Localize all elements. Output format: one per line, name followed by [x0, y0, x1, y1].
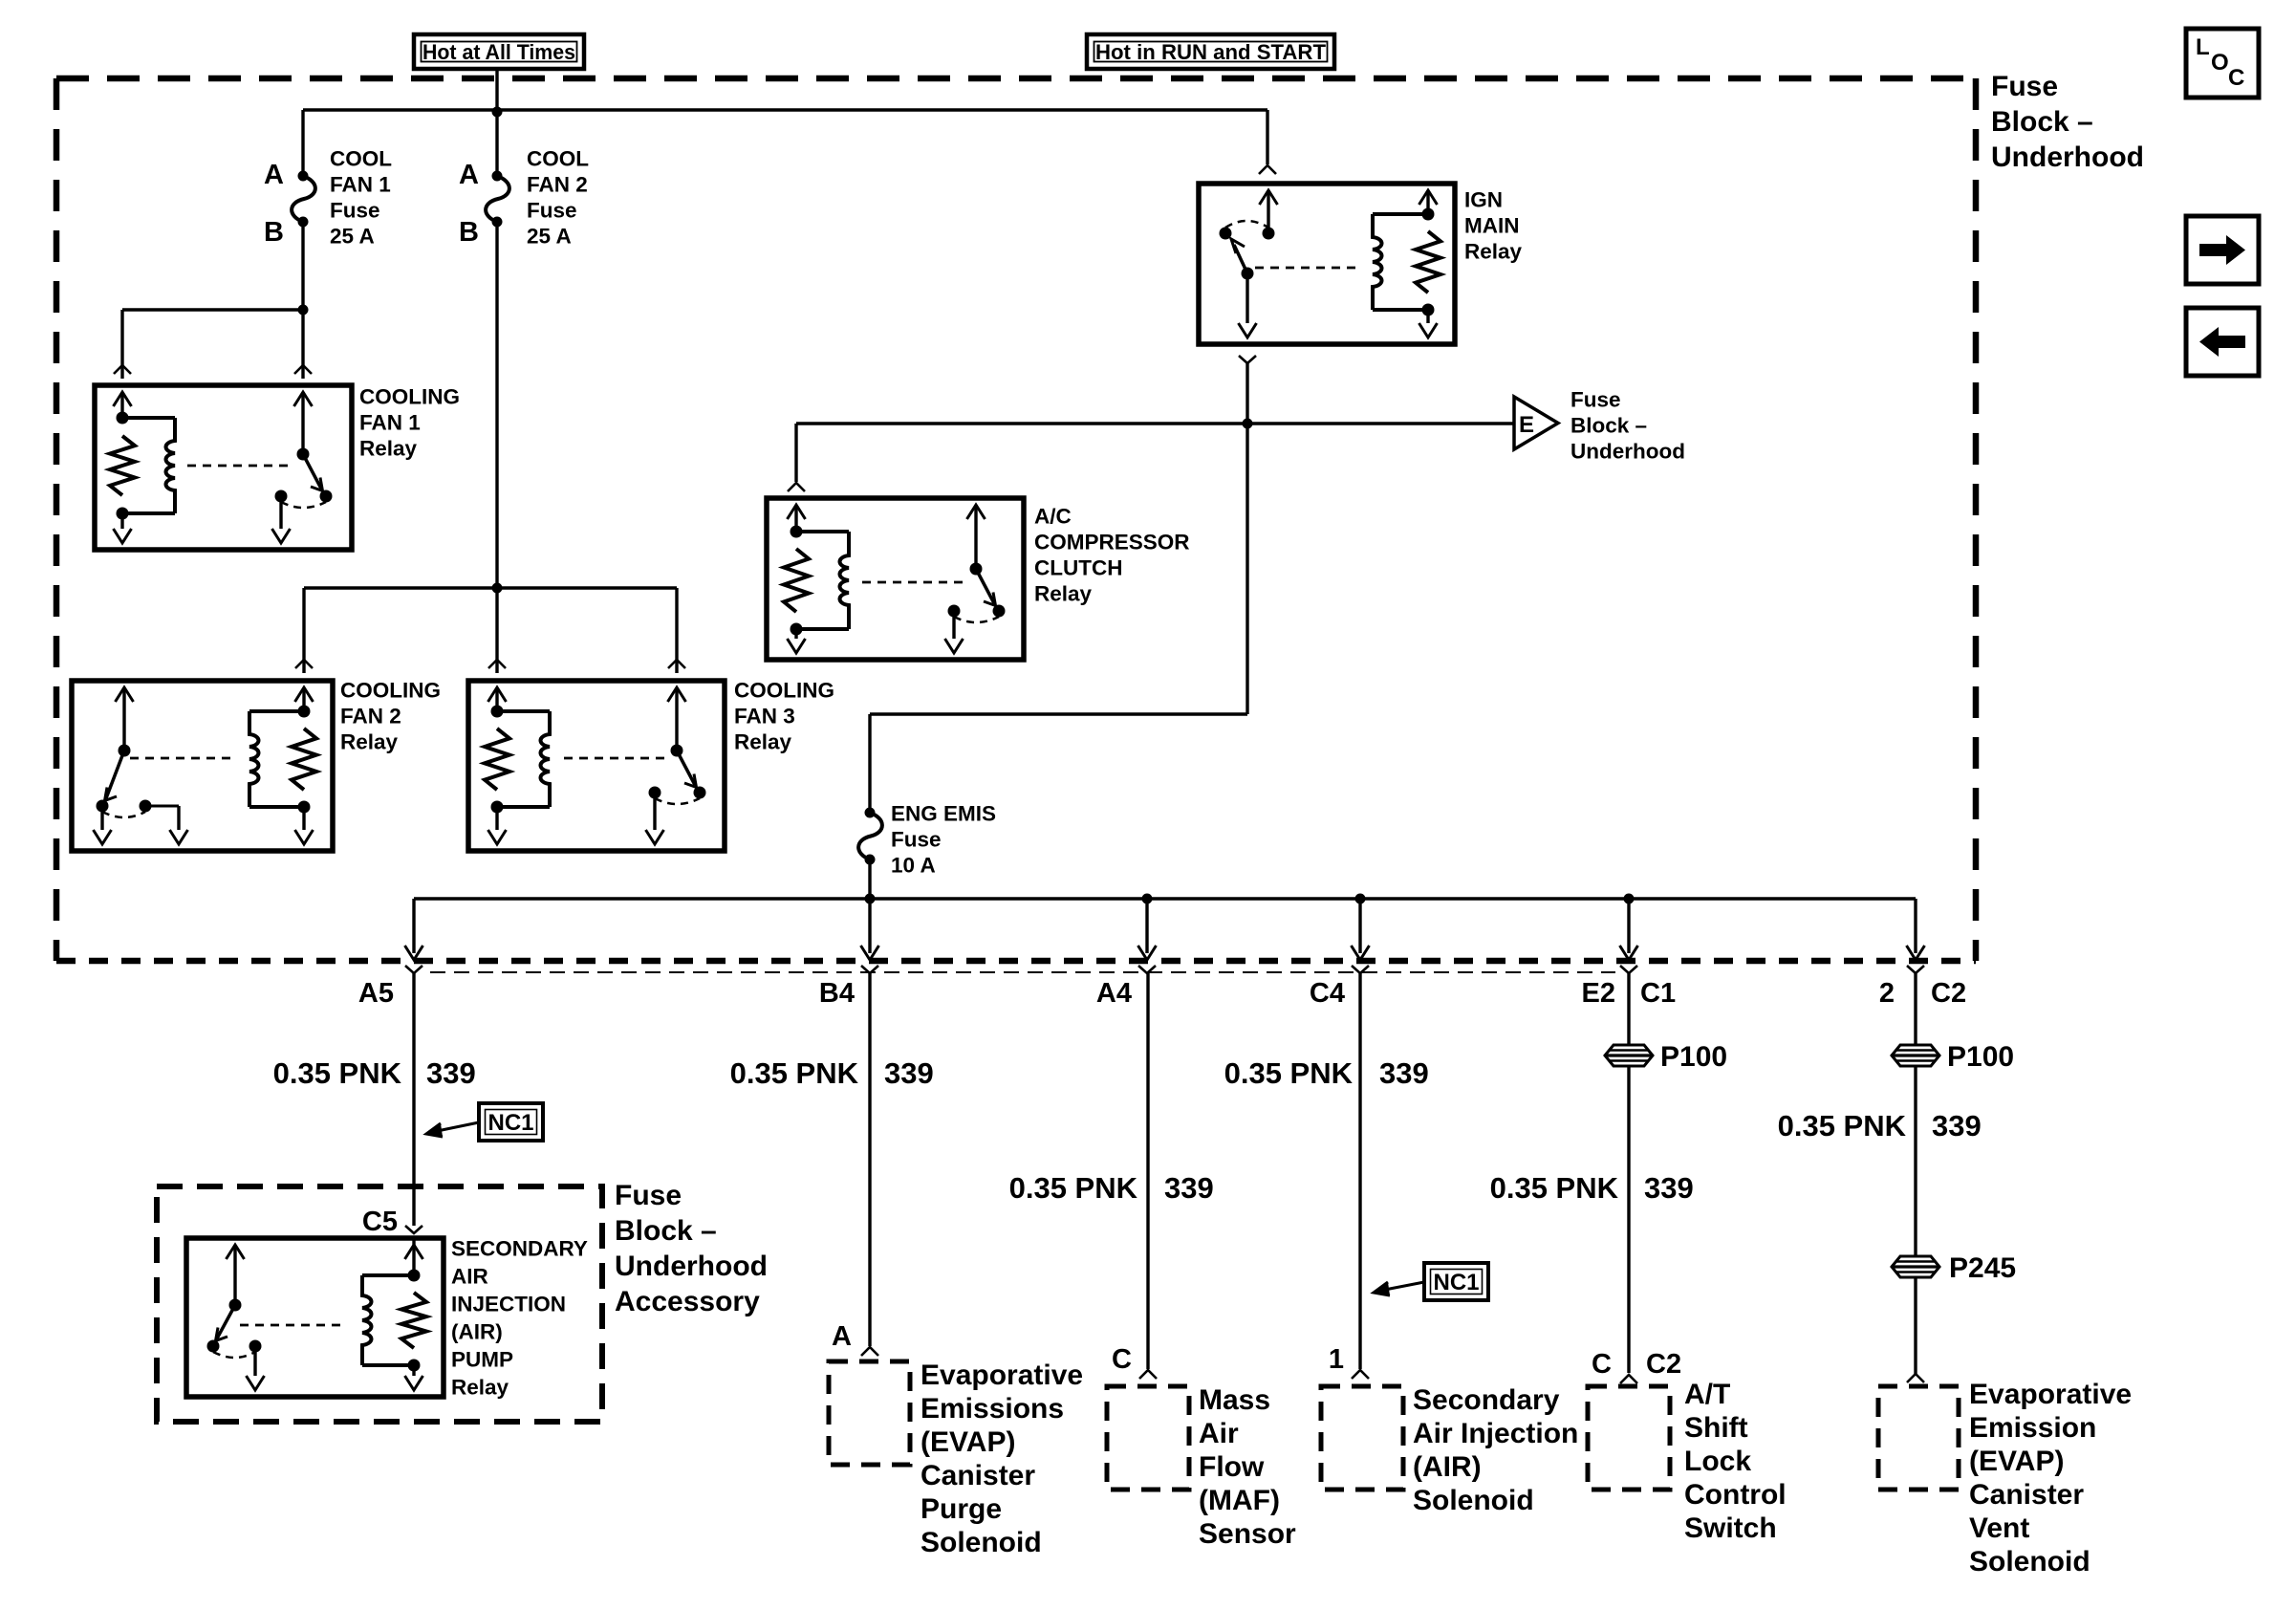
- svg-text:C: C: [1592, 1349, 1612, 1380]
- svg-text:COOL: COOL: [330, 146, 392, 170]
- svg-text:FAN 1: FAN 1: [330, 172, 391, 196]
- svg-text:339: 339: [1379, 1056, 1429, 1090]
- svg-text:IGN: IGN: [1464, 187, 1503, 211]
- svg-text:0.35 PNK: 0.35 PNK: [1490, 1171, 1619, 1205]
- svg-text:CLUTCH: CLUTCH: [1034, 555, 1122, 579]
- svg-text:E2: E2: [1582, 978, 1615, 1009]
- svg-text:E: E: [1519, 412, 1534, 438]
- svg-text:Accessory: Accessory: [615, 1286, 760, 1317]
- svg-text:Fuse: Fuse: [330, 198, 380, 222]
- svg-text:339: 339: [426, 1056, 476, 1090]
- svg-text:FAN 3: FAN 3: [734, 704, 795, 728]
- svg-text:FAN 1: FAN 1: [359, 410, 421, 434]
- svg-text:INJECTION: INJECTION: [451, 1292, 566, 1316]
- svg-text:C: C: [1112, 1344, 1132, 1375]
- svg-text:A/C: A/C: [1034, 504, 1072, 528]
- svg-text:Hot in RUN and START: Hot in RUN and START: [1095, 40, 1326, 64]
- svg-text:C1: C1: [1640, 978, 1676, 1009]
- svg-text:339: 339: [1644, 1171, 1694, 1205]
- svg-text:A: A: [459, 160, 479, 190]
- svg-text:0.35 PNK: 0.35 PNK: [1009, 1171, 1138, 1205]
- svg-text:1: 1: [1329, 1344, 1344, 1375]
- svg-text:Fuse: Fuse: [615, 1180, 682, 1211]
- svg-text:P100: P100: [1947, 1041, 2014, 1073]
- svg-text:A: A: [832, 1321, 852, 1352]
- svg-text:COOLING: COOLING: [359, 384, 460, 408]
- svg-text:COOL: COOL: [527, 146, 589, 170]
- svg-text:339: 339: [1164, 1171, 1214, 1205]
- svg-text:Solenoid: Solenoid: [1969, 1546, 2090, 1577]
- svg-text:Relay: Relay: [359, 436, 418, 460]
- svg-text:Underhood: Underhood: [1570, 439, 1685, 463]
- svg-text:2: 2: [1879, 978, 1895, 1009]
- svg-text:B: B: [264, 217, 284, 248]
- svg-text:FAN 2: FAN 2: [527, 172, 588, 196]
- svg-text:0.35 PNK: 0.35 PNK: [273, 1056, 402, 1090]
- svg-text:Fuse: Fuse: [1570, 387, 1621, 411]
- svg-text:P245: P245: [1949, 1252, 2016, 1284]
- svg-text:Canister: Canister: [921, 1460, 1035, 1491]
- svg-text:C4: C4: [1310, 978, 1345, 1009]
- svg-text:Block –: Block –: [1991, 106, 2093, 138]
- svg-text:A: A: [264, 160, 284, 190]
- svg-text:Fuse: Fuse: [891, 827, 942, 851]
- svg-text:C5: C5: [362, 1207, 398, 1237]
- svg-text:Mass: Mass: [1199, 1384, 1270, 1416]
- svg-text:COMPRESSOR: COMPRESSOR: [1034, 530, 1190, 554]
- svg-text:Relay: Relay: [734, 729, 792, 753]
- svg-text:339: 339: [1932, 1109, 1982, 1142]
- svg-text:25 A: 25 A: [330, 224, 375, 248]
- svg-text:Solenoid: Solenoid: [921, 1527, 1042, 1558]
- svg-text:COOLING: COOLING: [734, 678, 834, 702]
- svg-text:B: B: [459, 217, 479, 248]
- svg-text:AIR: AIR: [451, 1264, 488, 1288]
- svg-text:C2: C2: [1931, 978, 1966, 1009]
- svg-text:MAIN: MAIN: [1464, 213, 1520, 237]
- svg-text:C: C: [2228, 65, 2244, 91]
- svg-text:Secondary: Secondary: [1413, 1384, 1560, 1416]
- svg-text:FAN 2: FAN 2: [340, 704, 401, 728]
- svg-text:Emission: Emission: [1969, 1412, 2096, 1444]
- svg-text:25 A: 25 A: [527, 224, 572, 248]
- svg-text:Fuse: Fuse: [527, 198, 577, 222]
- svg-text:Fuse: Fuse: [1991, 71, 2058, 102]
- svg-text:Underhood: Underhood: [615, 1251, 768, 1282]
- svg-text:Canister: Canister: [1969, 1479, 2084, 1511]
- svg-text:Air: Air: [1199, 1418, 1239, 1449]
- svg-text:A/T: A/T: [1684, 1379, 1730, 1410]
- svg-text:10 A: 10 A: [891, 853, 936, 877]
- svg-text:Solenoid: Solenoid: [1413, 1485, 1534, 1516]
- svg-text:0.35 PNK: 0.35 PNK: [1778, 1109, 1907, 1142]
- svg-text:(AIR): (AIR): [451, 1319, 503, 1343]
- svg-text:B4: B4: [819, 978, 855, 1009]
- svg-text:Vent: Vent: [1969, 1512, 2029, 1544]
- svg-text:Underhood: Underhood: [1991, 141, 2144, 173]
- svg-text:Evaporative: Evaporative: [1969, 1379, 2132, 1410]
- svg-text:P100: P100: [1660, 1041, 1727, 1073]
- svg-text:(EVAP): (EVAP): [1969, 1446, 2064, 1477]
- svg-text:0.35 PNK: 0.35 PNK: [730, 1056, 859, 1090]
- svg-text:Shift: Shift: [1684, 1412, 1748, 1444]
- svg-text:Purge: Purge: [921, 1493, 1002, 1525]
- svg-text:C2: C2: [1646, 1349, 1681, 1380]
- svg-text:A5: A5: [358, 978, 394, 1009]
- svg-text:SECONDARY: SECONDARY: [451, 1236, 588, 1260]
- svg-text:A4: A4: [1096, 978, 1132, 1009]
- svg-text:Relay: Relay: [451, 1375, 509, 1399]
- svg-text:Block –: Block –: [615, 1215, 717, 1247]
- svg-text:(MAF): (MAF): [1199, 1485, 1280, 1516]
- svg-text:Control: Control: [1684, 1479, 1787, 1511]
- svg-text:339: 339: [884, 1056, 934, 1090]
- svg-text:Relay: Relay: [340, 729, 399, 753]
- svg-text:COOLING: COOLING: [340, 678, 441, 702]
- svg-text:NC1: NC1: [1433, 1270, 1479, 1295]
- svg-text:Relay: Relay: [1464, 239, 1523, 263]
- svg-text:Hot at All Times: Hot at All Times: [422, 40, 575, 64]
- svg-text:ENG EMIS: ENG EMIS: [891, 801, 996, 825]
- svg-text:Flow: Flow: [1199, 1451, 1265, 1483]
- svg-text:Block –: Block –: [1570, 413, 1647, 437]
- svg-text:O: O: [2211, 50, 2229, 76]
- svg-text:Lock: Lock: [1684, 1446, 1751, 1477]
- svg-text:Evaporative: Evaporative: [921, 1360, 1083, 1391]
- svg-text:(AIR): (AIR): [1413, 1451, 1482, 1483]
- svg-text:Air Injection: Air Injection: [1413, 1418, 1578, 1449]
- svg-text:Emissions: Emissions: [921, 1393, 1064, 1425]
- svg-text:0.35 PNK: 0.35 PNK: [1224, 1056, 1354, 1090]
- svg-text:(EVAP): (EVAP): [921, 1426, 1015, 1458]
- svg-text:L: L: [2196, 34, 2210, 60]
- svg-text:Sensor: Sensor: [1199, 1518, 1296, 1550]
- svg-text:NC1: NC1: [487, 1110, 533, 1136]
- svg-text:Switch: Switch: [1684, 1512, 1777, 1544]
- svg-text:Relay: Relay: [1034, 581, 1093, 605]
- svg-text:PUMP: PUMP: [451, 1347, 513, 1371]
